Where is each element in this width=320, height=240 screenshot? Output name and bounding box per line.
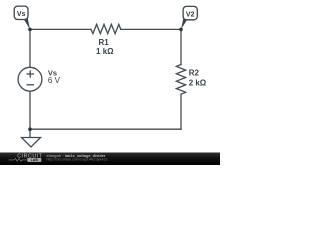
svg-text:LAB: LAB bbox=[31, 158, 39, 162]
svg-text:Vs: Vs bbox=[17, 11, 26, 18]
svg-text:1 kΩ: 1 kΩ bbox=[96, 47, 114, 56]
svg-text:R2: R2 bbox=[189, 68, 200, 77]
svg-text:V2: V2 bbox=[186, 11, 195, 18]
svg-text:http://circuitlab.com/c/apb4k2: http://circuitlab.com/c/apb4k23yk42x bbox=[46, 158, 107, 162]
svg-text:R1: R1 bbox=[98, 38, 109, 47]
svg-text:6 V: 6 V bbox=[48, 76, 61, 85]
svg-text:2 kΩ: 2 kΩ bbox=[189, 78, 207, 87]
